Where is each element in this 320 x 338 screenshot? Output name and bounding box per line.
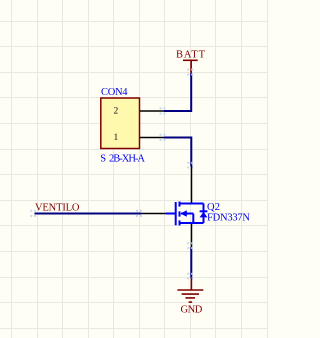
gate lead <box>166 213 176 215</box>
wire BATT to pin2 <box>164 73 191 111</box>
pin 1 stub <box>140 137 164 139</box>
wire source to GND <box>190 247 192 278</box>
body diode triangle <box>200 212 208 218</box>
body tie vertical <box>192 214 194 224</box>
junction marker pin1 <box>160 134 166 141</box>
junction marker source <box>187 242 193 249</box>
svg-text:CON4: CON4 <box>101 87 128 98</box>
channel segments <box>179 202 181 226</box>
junction marker gnd <box>187 273 193 280</box>
svg-text:2: 2 <box>114 107 119 117</box>
diode cathode bar <box>200 210 208 212</box>
transistor Q2 symbol <box>166 202 207 226</box>
bottom stub (source) <box>180 222 204 224</box>
source pin <box>191 224 193 247</box>
svg-text:S: S <box>100 154 106 165</box>
connector CON4 <box>100 87 145 165</box>
junction marker drain <box>187 162 193 169</box>
arrow on body stub <box>180 210 187 216</box>
svg-text:VENTILO: VENTILO <box>35 203 80 214</box>
pin 2 stub <box>140 110 164 112</box>
svg-text:2B-XH-A: 2B-XH-A <box>109 154 145 165</box>
wire VENTILO <box>35 213 142 215</box>
svg-text:1: 1 <box>114 133 119 143</box>
drain pin <box>191 167 193 204</box>
junction marker pin2 <box>160 107 166 114</box>
svg-text:GND: GND <box>181 304 203 315</box>
svg-text:Q2: Q2 <box>207 202 220 213</box>
junction marker ventilo end <box>30 210 36 217</box>
gate pin <box>141 213 166 215</box>
wire pin1 to drain <box>164 138 191 167</box>
top stub (drain) <box>180 203 204 205</box>
junction marker gate <box>136 210 142 217</box>
middle stub (body) <box>181 213 193 215</box>
ground <box>177 278 203 302</box>
svg-text:FDN337N: FDN337N <box>207 212 250 223</box>
power port BATT <box>176 50 206 74</box>
junction marker BATT <box>187 69 193 76</box>
svg-text:BATT: BATT <box>176 50 206 61</box>
right vertical <box>203 204 205 224</box>
gate bar <box>175 202 177 225</box>
